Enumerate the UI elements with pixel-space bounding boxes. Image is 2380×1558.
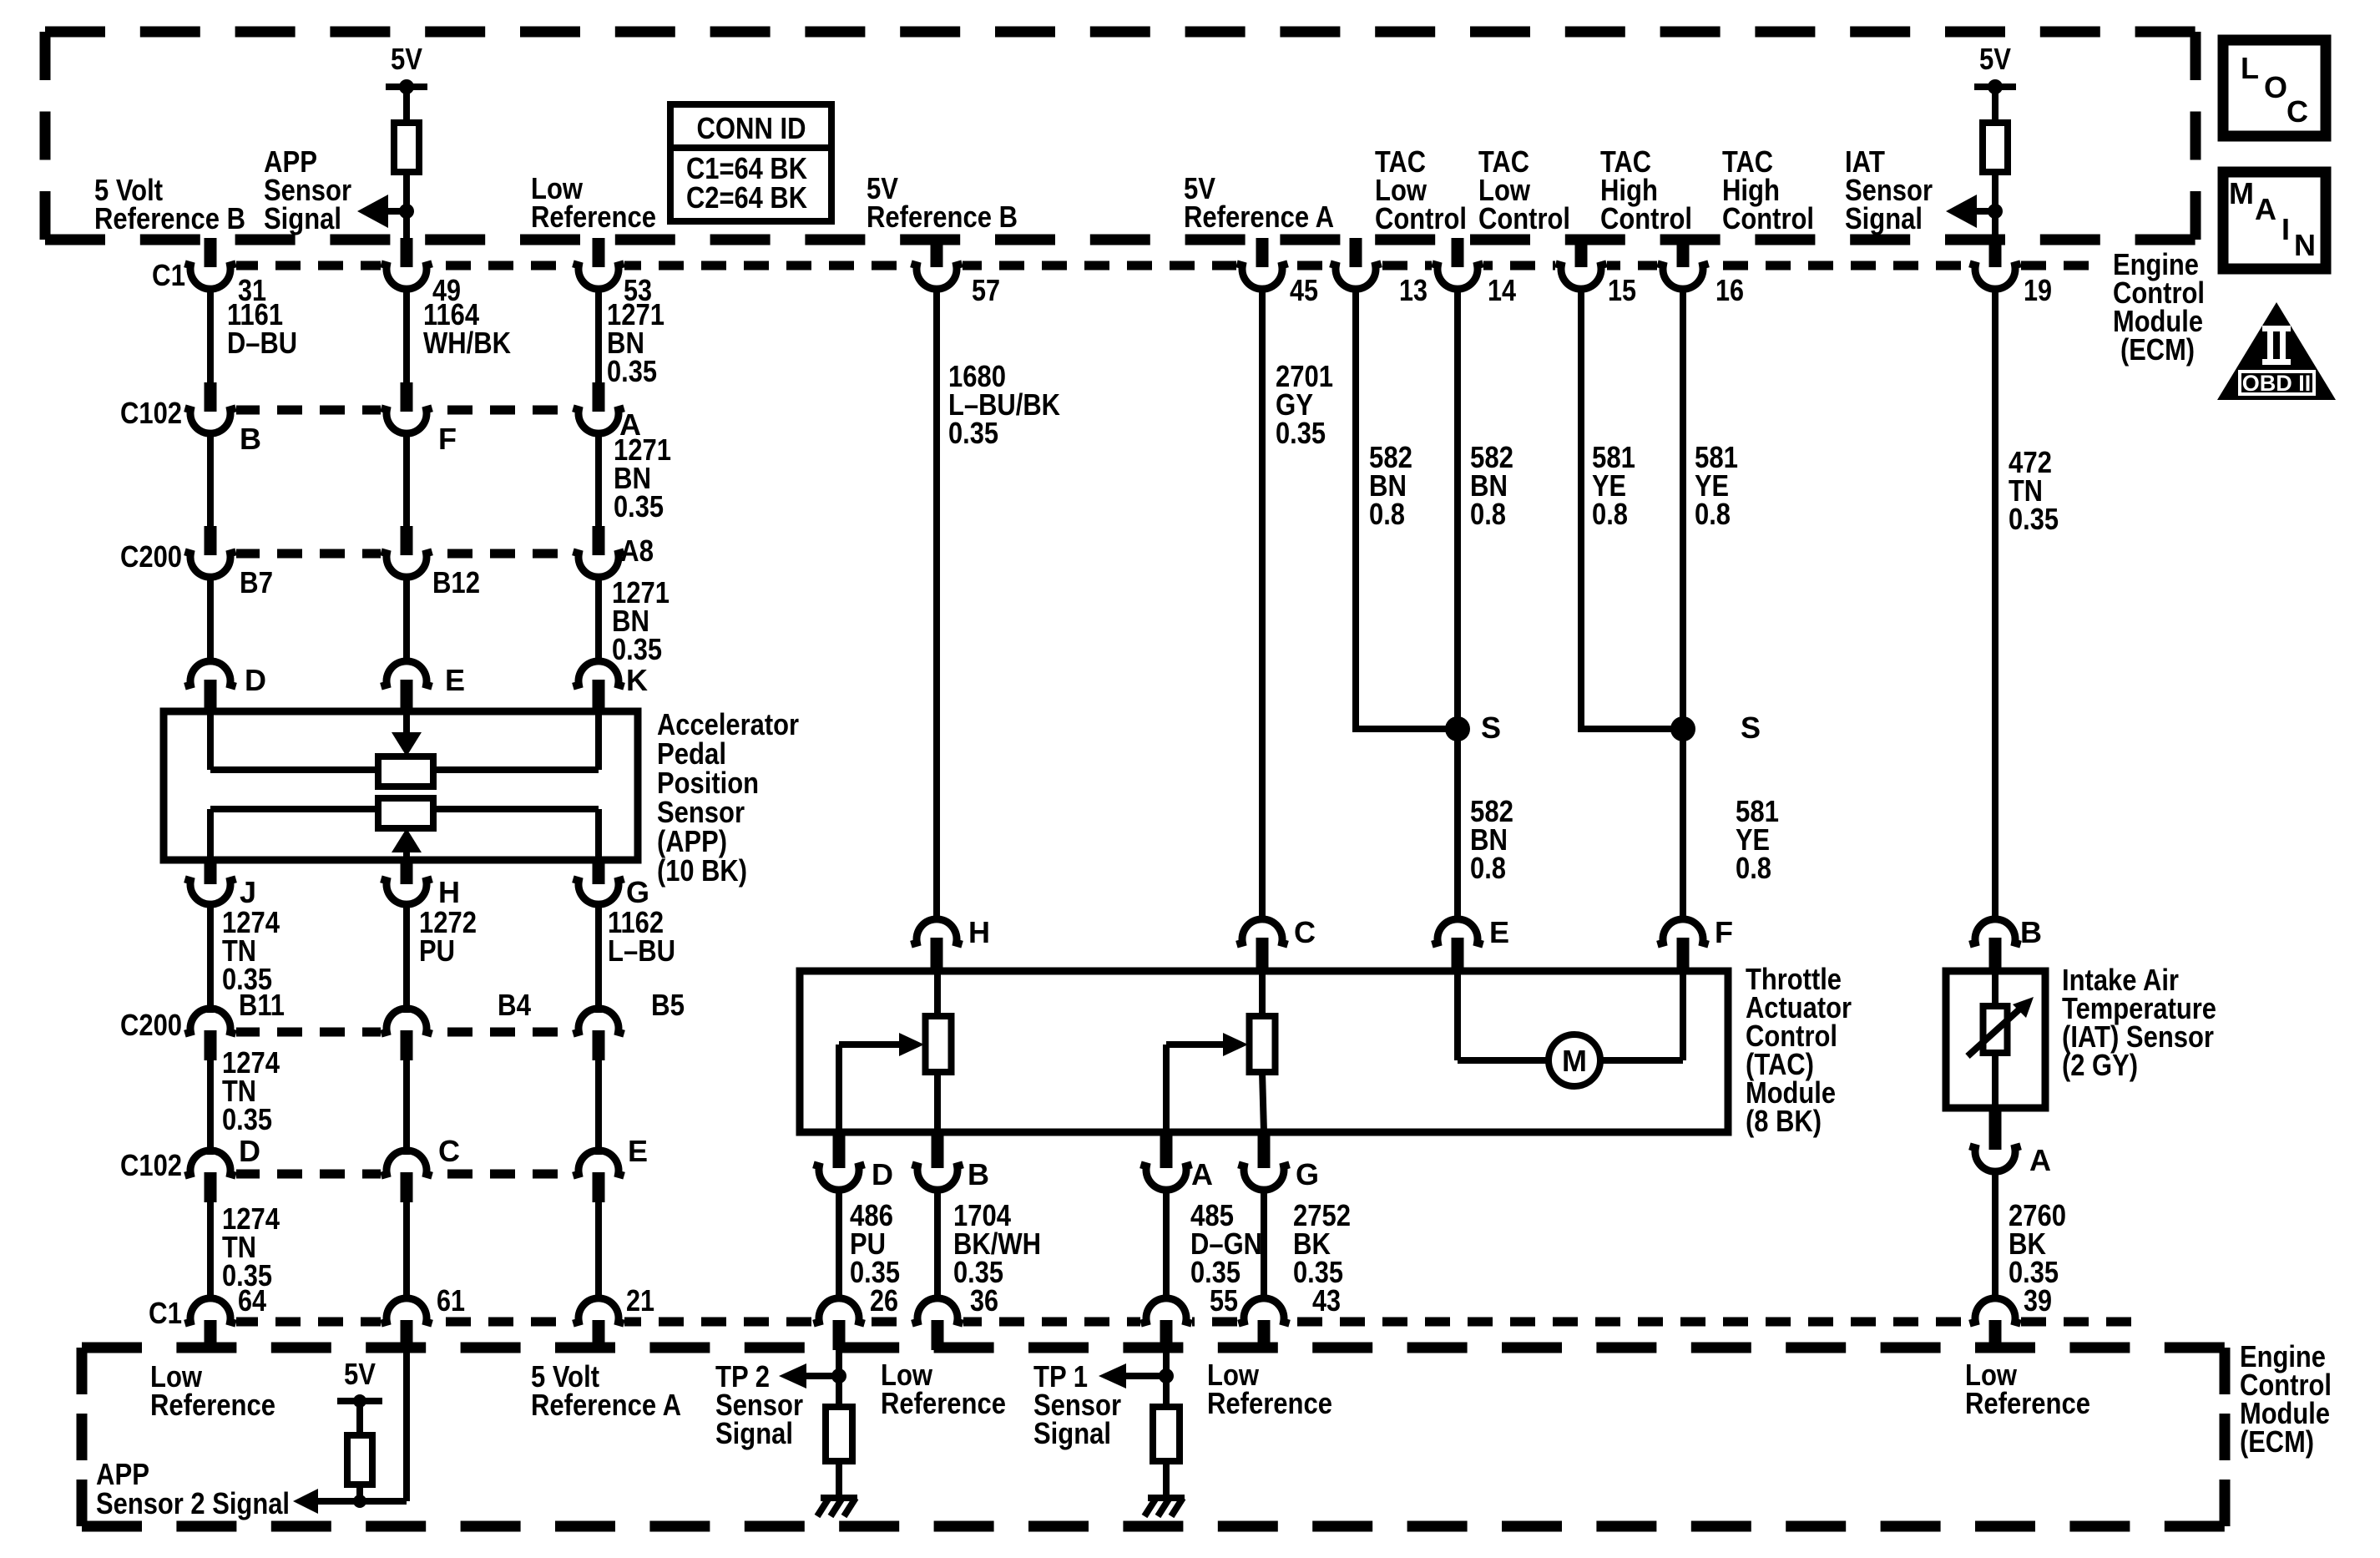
svg-text:N: N (2294, 228, 2316, 262)
OBD II symbol triangle (2217, 302, 2336, 400)
TAC pin E (1432, 919, 1483, 944)
Throttle Actuator Control TAC module box (800, 971, 1728, 1132)
connector C1 pin 13 (1350, 238, 1362, 267)
wire segment C102-C200 chain2 (403, 433, 410, 526)
svg-text:C: C (2287, 94, 2308, 129)
svg-text:5V: 5V (391, 42, 422, 76)
svg-text:I: I (2281, 212, 2290, 246)
IAT pin A (1989, 1106, 2002, 1150)
svg-text:F: F (1715, 915, 1733, 949)
connector C102 second dotted line (192, 1170, 618, 1179)
APP internal wire D (207, 711, 214, 770)
connector C1 pin 43 (1238, 1298, 1289, 1323)
svg-text:0.35: 0.35 (222, 1102, 272, 1136)
connector C102 pin E lower (573, 1151, 624, 1176)
svg-text:Control: Control (1722, 201, 1814, 235)
svg-text:B4: B4 (498, 988, 531, 1022)
wire 1272 PU segment 1 (403, 904, 410, 1013)
TP 2 sensor signal arrow (779, 1363, 806, 1389)
IAT internal wire (1992, 971, 1998, 1108)
TAC pin B (932, 1131, 944, 1168)
connector C1 pin 14 (1452, 238, 1464, 267)
svg-text:B: B (968, 1157, 989, 1191)
connector C1 pin 55 (1140, 1298, 1191, 1323)
svg-text:0.35: 0.35 (2009, 1255, 2059, 1289)
connector C102 pin D lower (184, 1151, 235, 1176)
APP internal wire J (207, 809, 214, 860)
svg-text:Reference: Reference (1965, 1386, 2090, 1420)
connector C1 top dotted line (190, 261, 2100, 271)
svg-text:E: E (628, 1134, 648, 1168)
wire 5V to resistor APP2 (356, 1401, 363, 1438)
resistor APP sensor 2 (347, 1435, 372, 1485)
TAC internal wire A (1163, 1045, 1170, 1132)
svg-text:B7: B7 (240, 565, 273, 599)
IAT thermistor element (1983, 1006, 2008, 1053)
svg-text:Reference B: Reference B (94, 201, 245, 235)
svg-text:0.35: 0.35 (850, 1255, 900, 1289)
wire 1271 segment 3 (595, 577, 602, 664)
wire 2752 BK (1261, 1189, 1267, 1298)
svg-text:C102: C102 (120, 396, 182, 430)
connector C1 pin 21 (573, 1298, 624, 1323)
svg-text:0.8: 0.8 (1736, 851, 1771, 885)
svg-text:13: 13 (1399, 273, 1427, 307)
APP pot 1 element (378, 756, 433, 787)
TAC pot 2 element (1250, 1016, 1276, 1072)
svg-text:D–BU: D–BU (227, 326, 297, 360)
APP pin E (381, 661, 432, 686)
svg-text:F: F (438, 422, 457, 456)
wire 581 YE pin 16 (1680, 289, 1686, 922)
svg-text:Control: Control (1600, 201, 1692, 235)
svg-text:K: K (626, 663, 648, 697)
svg-text:0.35: 0.35 (953, 1255, 1003, 1289)
connector C200 second dotted line (192, 1028, 618, 1037)
resistor pull-up IAT (1983, 123, 2008, 172)
APP internal wire G (595, 809, 602, 860)
svg-text:Signal: Signal (1033, 1416, 1111, 1450)
svg-text:Control: Control (1375, 201, 1467, 235)
TAC internal wire G lower (1262, 1072, 1264, 1132)
connector C200 pin B11 (184, 1009, 235, 1034)
svg-text:0.35: 0.35 (948, 416, 998, 450)
svg-text:0.35: 0.35 (607, 354, 657, 388)
CONN ID table (670, 104, 831, 221)
wire TP2 junction to resistor (836, 1376, 842, 1409)
TP 1 sensor signal arrow (1099, 1363, 1126, 1389)
svg-text:C200: C200 (120, 539, 182, 574)
TAC pin H (911, 919, 962, 944)
motor M (1549, 1034, 1600, 1086)
connector C1 pin 36 (912, 1298, 963, 1323)
svg-text:G: G (626, 875, 649, 909)
connector C1 pin 45 (1256, 238, 1269, 267)
connector C1 pin 31 (205, 238, 217, 267)
node TP2 junction (831, 1368, 846, 1383)
connector C102 pin F (401, 382, 413, 412)
wire segment C102-C200 chain1 (207, 433, 214, 526)
connector C200 pin B12 (401, 526, 413, 555)
connector C1 pin 16 (1677, 238, 1690, 267)
svg-text:Reference A: Reference A (1184, 200, 1334, 234)
node IAT sensor signal junction (1988, 204, 2003, 219)
wire resistor to junction IAT (1992, 172, 1998, 211)
resistor pull-up APP (394, 123, 419, 172)
Accelerator Pedal Position Sensor APP box (164, 711, 638, 860)
svg-text:Reference B: Reference B (867, 200, 1018, 234)
wire resistor to junction (403, 172, 410, 211)
svg-text:A8: A8 (620, 534, 654, 568)
svg-text:Reference: Reference (881, 1386, 1006, 1420)
svg-text:A: A (2029, 1143, 2051, 1177)
APP pin H (401, 858, 413, 884)
svg-text:B: B (240, 422, 261, 456)
svg-text:S: S (1741, 711, 1761, 745)
svg-text:0.35: 0.35 (222, 962, 272, 996)
svg-text:(2 GY): (2 GY) (2062, 1048, 2138, 1082)
connector C200 pin B7 (205, 526, 217, 555)
svg-text:16: 16 (1716, 273, 1744, 307)
wire segment C200-D chain1 (207, 577, 214, 664)
svg-text:61: 61 (437, 1283, 465, 1318)
wire TP2 resistor to ground (836, 1461, 842, 1498)
wire 1274 segment 3 (207, 1202, 214, 1298)
TAC pin G (1258, 1131, 1271, 1168)
svg-text:B12: B12 (432, 565, 480, 599)
wire 1162 L-BU segment 1 (595, 904, 602, 1013)
TAC pot 2 wiper arrow (1223, 1033, 1248, 1056)
wire 1271 BN segment 1 (595, 289, 602, 382)
TAC pin A (1160, 1131, 1173, 1168)
wire 1704 BK/WH (934, 1189, 941, 1298)
ECM bottom module dashed box (82, 1343, 2225, 1353)
APP internal wire K (595, 711, 602, 770)
svg-text:0.8: 0.8 (1592, 497, 1628, 531)
svg-text:0.35: 0.35 (614, 489, 664, 524)
svg-text:D: D (245, 663, 266, 697)
wire 1274 TN segment 1 (207, 904, 214, 1013)
wire 1274 segment 2 (207, 1060, 214, 1155)
connector C1 pin 49 (401, 238, 413, 267)
wire 2760 BK (1992, 1171, 1998, 1298)
wire 1162 segment 3 (595, 1202, 602, 1298)
svg-text:L–BU: L–BU (608, 933, 675, 968)
svg-text:0.8: 0.8 (1369, 497, 1405, 531)
APP pin J (205, 858, 217, 884)
svg-text:O: O (2264, 70, 2287, 104)
svg-text:L: L (2241, 51, 2259, 85)
TAC pot 1 wiper arrow (899, 1033, 924, 1056)
wire 1272 segment 2 (403, 1060, 410, 1155)
svg-text:57: 57 (972, 273, 1000, 307)
svg-text:Signal: Signal (715, 1416, 793, 1450)
svg-text:B5: B5 (651, 988, 685, 1022)
APP sensor signal arrow (388, 208, 407, 215)
wire 1164 WH/BK segment 1 (403, 289, 410, 382)
APP wiper arrow up from H (403, 851, 410, 860)
TAC internal wire D (836, 1045, 842, 1132)
wire 1162 segment 2 (595, 1060, 602, 1155)
wire TP1 resistor to ground (1163, 1461, 1170, 1498)
node APP sensor 2 junction (353, 1495, 366, 1508)
TAC pin F (1657, 919, 1708, 944)
connector C1 pin 15 (1575, 238, 1588, 267)
wire 581 YE pin 15 (1581, 289, 1683, 729)
svg-text:C102: C102 (120, 1148, 182, 1182)
svg-text:C: C (438, 1134, 460, 1168)
connector C1 pin 57 (931, 238, 943, 267)
svg-text:H: H (968, 915, 990, 949)
TAC pin D (833, 1131, 846, 1168)
TAC internal wire H-B upper (934, 971, 941, 1019)
svg-text:45: 45 (1290, 273, 1318, 307)
svg-text:0.35: 0.35 (1293, 1255, 1343, 1289)
svg-text:0.35: 0.35 (612, 632, 662, 666)
wire 5V to resistor (403, 87, 410, 126)
svg-text:CONN ID: CONN ID (697, 111, 806, 145)
Intake Air Temperature IAT sensor box (1946, 971, 2045, 1108)
svg-text:15: 15 (1608, 273, 1636, 307)
svg-text:B: B (2020, 915, 2042, 949)
wire 5V to resistor IAT (1992, 87, 1998, 126)
svg-text:Reference: Reference (531, 200, 656, 234)
svg-text:(ECM): (ECM) (2240, 1424, 2314, 1459)
APP pin G (593, 858, 605, 884)
connector C102 pin C lower (381, 1151, 432, 1176)
connector C1 pin 26 (813, 1298, 864, 1323)
svg-text:E: E (445, 663, 465, 697)
connector C200 pin B5 (573, 1009, 624, 1034)
svg-text:Control: Control (1478, 201, 1570, 235)
svg-text:(10 BK): (10 BK) (657, 853, 747, 888)
svg-text:A: A (2255, 192, 2276, 226)
svg-text:(8 BK): (8 BK) (1746, 1104, 1822, 1138)
TAC pot 1 element (926, 1016, 952, 1072)
svg-text:0.35: 0.35 (1276, 416, 1326, 450)
wire 582 BN pin 14 (1454, 289, 1461, 922)
wire resistor to junction APP2 (356, 1485, 363, 1501)
svg-text:0.35: 0.35 (1190, 1255, 1241, 1289)
LOC reference box (2223, 40, 2326, 136)
connector C200 pin B4 (381, 1009, 432, 1034)
svg-text:Reference A: Reference A (531, 1388, 681, 1422)
connector C1 pin 61 (381, 1298, 432, 1323)
svg-text:0.8: 0.8 (1470, 851, 1506, 885)
APP pin K (573, 661, 624, 686)
node TP1 junction (1159, 1368, 1174, 1383)
svg-text:C1: C1 (149, 1296, 182, 1330)
svg-text:Reference: Reference (1207, 1386, 1332, 1420)
APP pot 2 element (378, 798, 433, 828)
svg-text:C200: C200 (120, 1008, 182, 1042)
svg-text:D: D (239, 1134, 260, 1168)
svg-text:Signal: Signal (1845, 201, 1923, 235)
IAT pin B (1969, 919, 2020, 944)
wire 485 D-GN (1163, 1189, 1170, 1298)
connector C102 pin B (205, 382, 217, 412)
svg-text:14: 14 (1488, 273, 1516, 307)
svg-text:H: H (438, 875, 460, 909)
APP wiper arrow down from E (403, 711, 410, 735)
resistor TP2 (826, 1407, 852, 1461)
wire 1272 segment 3 (403, 1202, 410, 1298)
svg-text:19: 19 (2024, 273, 2052, 307)
svg-text:0.35: 0.35 (222, 1258, 272, 1292)
svg-text:(ECM): (ECM) (2120, 332, 2195, 367)
connector C1 pin 64 (184, 1298, 235, 1323)
wire pin 61 to APP sensor 2 junction (403, 1350, 410, 1501)
wire 1271 segment 2 (595, 433, 602, 526)
svg-text:Signal: Signal (264, 201, 341, 235)
svg-text:C2=64 BK: C2=64 BK (686, 180, 807, 215)
wire pin 55 to TP1 junction (1163, 1350, 1170, 1376)
IAT sensor signal arrow (1977, 208, 1995, 215)
ECM top module dashed box (45, 27, 2196, 38)
svg-text:0.8: 0.8 (1695, 497, 1731, 531)
connector C1 pin 39 (1969, 1298, 2020, 1323)
wire segment C200-E chain2 (403, 577, 410, 664)
svg-text:5V: 5V (1979, 42, 2011, 76)
svg-text:Sensor 2 Signal: Sensor 2 Signal (96, 1486, 290, 1520)
wire 582 BN pin 13 (1356, 289, 1458, 729)
svg-text:E: E (1489, 915, 1509, 949)
TAC internal wire C-G upper (1259, 971, 1266, 1019)
svg-text:J: J (240, 875, 256, 909)
svg-text:WH/BK: WH/BK (423, 326, 511, 360)
wire junction to pin 19 (1992, 211, 1998, 240)
resistor TP1 (1153, 1407, 1180, 1461)
node S junction left (1445, 716, 1470, 741)
wire 1161 D-BU segment 1 (207, 289, 214, 382)
IAT thermistor arrow (1968, 1008, 2021, 1056)
svg-text:0.35: 0.35 (2009, 502, 2059, 536)
svg-text:0.8: 0.8 (1470, 497, 1506, 531)
wire TP1 junction to resistor (1163, 1376, 1170, 1409)
connector C1 pin 53 (593, 238, 605, 267)
connector C200 pin A8 (593, 526, 605, 555)
svg-text:21: 21 (626, 1283, 654, 1318)
APP pin D (184, 661, 235, 686)
svg-text:Reference: Reference (150, 1388, 275, 1422)
connector C102 pin A (593, 382, 605, 412)
wire 2701 GY (1259, 289, 1266, 922)
node APP sensor signal junction (399, 204, 414, 219)
wire 486 PU (836, 1189, 842, 1298)
svg-text:OBD II: OBD II (2242, 371, 2312, 396)
connector C1 pin 19 (1989, 238, 2002, 267)
svg-text:D: D (872, 1157, 893, 1191)
wire pin 26 to TP2 junction (836, 1350, 842, 1376)
svg-text:G: G (1296, 1157, 1319, 1191)
TAC pin C (1236, 919, 1287, 944)
svg-text:C: C (1294, 915, 1316, 949)
connector C200 dotted line (192, 549, 618, 559)
svg-text:M: M (2229, 176, 2254, 210)
TAC internal wire B lower (934, 1072, 941, 1132)
svg-text:A: A (1191, 1157, 1213, 1191)
svg-text:S: S (1481, 711, 1501, 745)
wire 472 TN (1992, 289, 1998, 922)
svg-text:C1: C1 (152, 258, 185, 292)
MAIN reference box (2223, 172, 2326, 269)
node S junction right (1670, 716, 1695, 741)
APP sensor 2 signal arrow (293, 1489, 318, 1514)
svg-text:5V: 5V (344, 1357, 376, 1391)
svg-text:PU: PU (419, 933, 455, 968)
wire junction to pin 49 (403, 211, 410, 240)
ground TP2 (817, 1498, 857, 1516)
connector C102 dotted line (192, 406, 618, 415)
TAC internal wire F to motor (1680, 971, 1686, 1060)
wire 1680 L-BU/BK (933, 289, 940, 922)
ground TP1 (1145, 1498, 1185, 1516)
TAC internal wire E to motor (1454, 971, 1461, 1060)
connector C1 bottom dotted line (190, 1318, 2137, 1327)
svg-text:M: M (1562, 1044, 1587, 1078)
